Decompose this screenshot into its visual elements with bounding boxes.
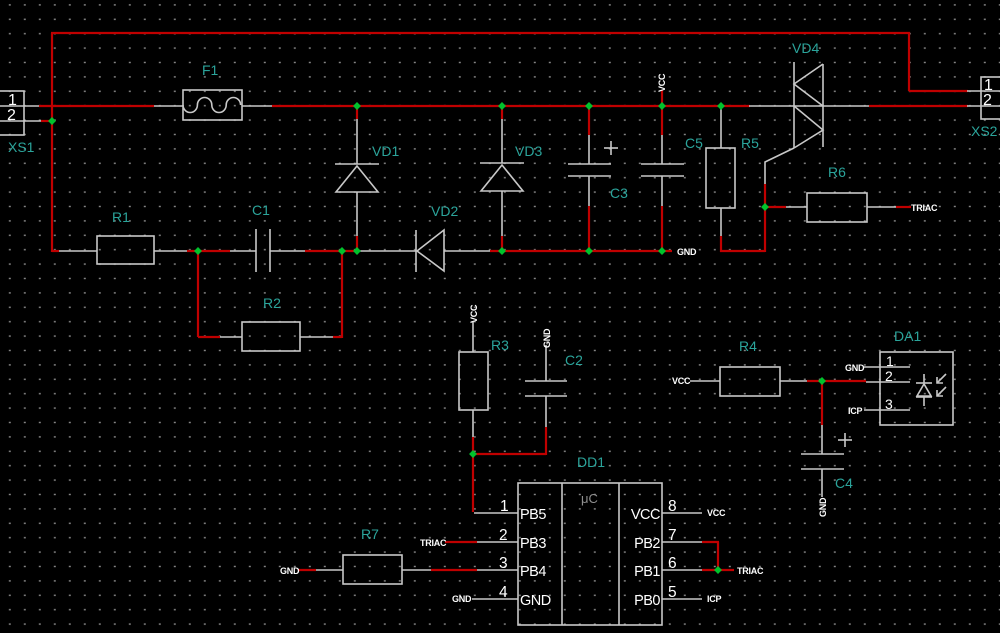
resistor R4 body xyxy=(690,367,807,396)
svg-text:GND: GND xyxy=(677,247,697,257)
svg-text:TRIAC: TRIAC xyxy=(911,203,938,213)
svg-text:2: 2 xyxy=(885,368,893,384)
wire VCC net stub xyxy=(661,90,663,106)
svg-text:PB0: PB0 xyxy=(634,593,660,609)
svg-text:GND: GND xyxy=(452,594,472,604)
connector XS1 xyxy=(0,91,41,135)
svg-text:8: 8 xyxy=(668,498,677,515)
junction R3 C2 pin1 xyxy=(469,450,477,458)
wire VD3 top stub xyxy=(501,106,503,119)
resistor R2 body xyxy=(220,322,333,351)
wire R2 branch left lead xyxy=(198,336,220,338)
wire R3 junction to C2 xyxy=(472,453,546,455)
junction C5 bottom xyxy=(658,247,666,255)
wire C3 top stub xyxy=(588,106,590,135)
resistor R7 body xyxy=(316,555,431,584)
capacitor C4 plus sign xyxy=(838,433,852,447)
svg-text:5: 5 xyxy=(668,584,677,601)
svg-text:ICP: ICP xyxy=(848,406,863,416)
wire R5 loop up to gate xyxy=(764,184,766,252)
svg-text:GND: GND xyxy=(845,363,865,373)
wire C5 bottom stub xyxy=(661,206,663,251)
wire VD3 bottom stub xyxy=(501,236,503,251)
svg-text:VCC: VCC xyxy=(657,73,667,92)
svg-text:GND: GND xyxy=(818,497,828,517)
svg-text:XS2: XS2 xyxy=(971,123,998,139)
junction VD3 top xyxy=(498,102,506,110)
capacitor C2 plates xyxy=(525,345,567,427)
resistor R1 body xyxy=(59,236,187,264)
wire to XS2 pin1 xyxy=(909,90,968,92)
optocoupler DA1 box xyxy=(864,352,953,425)
junction C3 top xyxy=(585,102,593,110)
junction C3 bottom xyxy=(585,247,593,255)
wire R5 bottom drop xyxy=(720,236,722,252)
svg-text:VCC: VCC xyxy=(631,507,660,523)
junction C1 R2 right xyxy=(338,247,346,255)
junction VD1 top xyxy=(353,102,361,110)
junction R1 C1 R2 xyxy=(194,247,202,255)
wire C5 top stub xyxy=(661,106,663,135)
diode VD2 xyxy=(359,230,490,272)
capacitor C3 plus sign xyxy=(604,141,618,155)
svg-text:1: 1 xyxy=(886,353,894,369)
wire DD1 pin7 out xyxy=(702,541,719,543)
wire R4 to DA1 pin2 xyxy=(807,380,866,382)
fuse F1 body xyxy=(154,90,272,120)
IC DD1 box xyxy=(518,483,662,625)
triac VD4 xyxy=(749,62,869,184)
svg-text:1: 1 xyxy=(500,498,509,515)
capacitor C3 plates xyxy=(568,135,611,206)
junction triac gate R6 xyxy=(761,203,769,211)
svg-text:ICP: ICP xyxy=(707,594,722,604)
svg-text:GND: GND xyxy=(520,593,551,609)
svg-text:2: 2 xyxy=(7,107,16,124)
svg-text:4: 4 xyxy=(499,584,508,601)
capacitor C1 plates xyxy=(230,229,305,272)
svg-text:VD1: VD1 xyxy=(372,143,399,159)
svg-text:GND: GND xyxy=(542,328,552,348)
optocoupler DA1 LED xyxy=(916,374,932,406)
junction R4 DA1 C4 xyxy=(818,377,826,385)
connector XS2 xyxy=(967,77,1000,119)
junction R5 top xyxy=(717,102,725,110)
svg-text:PB4: PB4 xyxy=(520,564,546,580)
resistor R3 body xyxy=(459,322,488,437)
wire left vertical from top rail xyxy=(51,33,53,252)
svg-text:PB5: PB5 xyxy=(520,507,546,523)
wire top rail horizontal xyxy=(51,32,910,34)
svg-text:R4: R4 xyxy=(739,338,757,354)
svg-text:VCC: VCC xyxy=(707,508,726,518)
wire R1 to C1 junction xyxy=(187,250,230,252)
wire C2 bottom drop xyxy=(545,427,547,455)
resistor R5 body xyxy=(706,106,735,236)
wire R3 bottom to DD1 pin1 xyxy=(472,437,474,512)
wire DD1 pin7 corner down xyxy=(717,542,719,570)
svg-text:C1: C1 xyxy=(252,202,270,218)
svg-text:R6: R6 xyxy=(828,164,846,180)
junction VD1 bottom xyxy=(353,247,361,255)
wire R6 to TRIAC label xyxy=(896,206,911,208)
svg-text:μC: μC xyxy=(581,491,598,506)
svg-text:PB1: PB1 xyxy=(634,564,660,580)
junction pin7 pin6 xyxy=(714,566,722,574)
wire gate junction to R6 xyxy=(765,206,786,208)
svg-text:3: 3 xyxy=(499,555,508,572)
wire C1 to VD1 junction xyxy=(305,250,359,252)
wire top rail right drop xyxy=(908,32,910,91)
wire triac to XS2 pin2 xyxy=(869,105,968,107)
diode VD3 xyxy=(480,119,524,236)
svg-text:7: 7 xyxy=(668,527,677,544)
wire VD2 to GND end xyxy=(490,250,672,252)
junction C5 VCC top xyxy=(658,102,666,110)
svg-text:F1: F1 xyxy=(202,62,219,78)
diode VD1 xyxy=(335,119,379,236)
junction XS1 pin2 xyxy=(48,117,56,125)
svg-text:PB2: PB2 xyxy=(634,536,660,552)
svg-text:VD4: VD4 xyxy=(792,40,819,56)
optocoupler DA1 light arrows xyxy=(937,374,946,396)
capacitor C5 plates xyxy=(641,135,684,206)
svg-text:C4: C4 xyxy=(835,475,853,491)
wire C3 bottom stub xyxy=(588,206,590,251)
resistor R6 body xyxy=(786,193,896,222)
svg-text:DD1: DD1 xyxy=(577,454,605,470)
svg-text:GND: GND xyxy=(280,566,300,576)
IC DD1 pin stubs left xyxy=(472,513,518,599)
wire GND to R7 xyxy=(298,569,316,571)
svg-text:VD3: VD3 xyxy=(515,143,542,159)
svg-text:VCC: VCC xyxy=(469,304,479,323)
svg-text:R3: R3 xyxy=(491,337,509,353)
svg-text:6: 6 xyxy=(668,555,677,572)
wire VD1 top stub xyxy=(356,106,358,119)
wire R2 right to corner xyxy=(333,336,342,338)
svg-text:3: 3 xyxy=(885,396,893,412)
wire main AC rail xyxy=(272,105,750,107)
wire DD1 pin6 to TRIAC label xyxy=(702,569,734,571)
wire bottom rail left xyxy=(52,250,59,252)
svg-text:C5: C5 xyxy=(685,135,703,151)
svg-text:R7: R7 xyxy=(361,526,379,542)
wire R5 loop bottom xyxy=(720,250,765,252)
svg-text:C3: C3 xyxy=(610,185,628,201)
wire R7 to DD1 pin3 xyxy=(431,569,477,571)
wire TRIAC to DD1 pin2 xyxy=(445,541,477,543)
svg-text:DA1: DA1 xyxy=(894,328,921,344)
svg-text:R2: R2 xyxy=(263,295,281,311)
svg-text:R1: R1 xyxy=(112,209,130,225)
wire R2 corner up xyxy=(341,251,343,338)
IC DD1 pin stubs right xyxy=(662,513,702,599)
svg-text:2: 2 xyxy=(499,527,508,544)
wire R2 branch down xyxy=(197,251,199,337)
svg-text:TRIAC: TRIAC xyxy=(420,538,447,548)
wire XS1 pin2 stub xyxy=(41,120,52,122)
svg-text:C2: C2 xyxy=(565,352,583,368)
svg-text:2: 2 xyxy=(983,92,992,109)
capacitor C4 plates xyxy=(801,425,844,497)
wire VD1 bottom stub xyxy=(356,236,358,251)
junction VD3 bottom xyxy=(498,247,506,255)
svg-text:XS1: XS1 xyxy=(8,139,35,155)
svg-text:TRIAC: TRIAC xyxy=(737,566,764,576)
wire C4 branch down xyxy=(821,381,823,425)
svg-text:VCC: VCC xyxy=(672,376,691,386)
wire XS1 pin1 to fuse xyxy=(39,105,154,107)
svg-text:PB3: PB3 xyxy=(520,536,546,552)
svg-text:R5: R5 xyxy=(741,135,759,151)
svg-text:VD2: VD2 xyxy=(431,203,458,219)
